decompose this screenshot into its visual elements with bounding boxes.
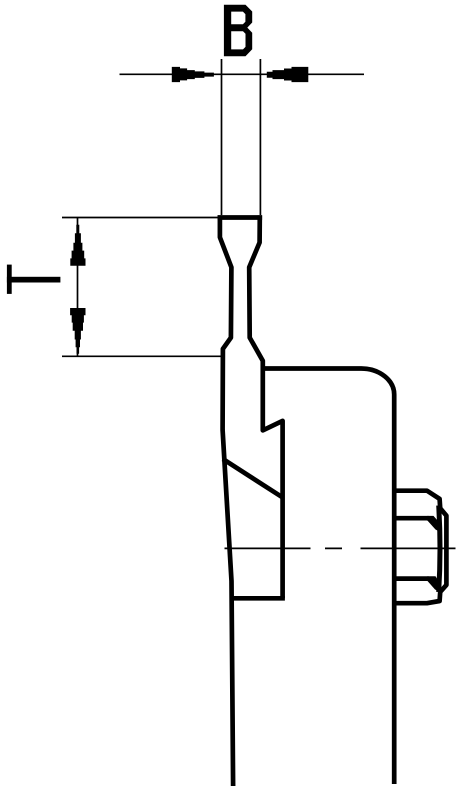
extension line B left [221, 59, 223, 215]
hex middle facet arc [439, 506, 440, 593]
arrowhead B right [267, 67, 309, 82]
hex bolt outline [397, 491, 447, 604]
label B (tooth width) [224, 5, 252, 56]
body top edge with rounded corner [264, 368, 394, 784]
arrowhead T down [70, 308, 85, 354]
arrowhead T up [70, 225, 85, 266]
extension line T top [62, 217, 219, 219]
tooth left profile [220, 215, 233, 786]
hex facet line upper [397, 516, 429, 521]
centre line [225, 547, 311, 549]
extension line B right [259, 59, 261, 215]
extension line T bottom [62, 355, 224, 357]
tooth tip top edge [218, 215, 263, 220]
chip-breaker diagonal [223, 459, 283, 497]
hex facet line lower [397, 576, 429, 581]
hex facet fillet upper [428, 516, 442, 533]
hex facet fillet lower [428, 576, 442, 592]
tooth right profile [249, 215, 282, 598]
dimension line B [120, 73, 365, 75]
holder bottom edge [232, 596, 285, 601]
label T (tooth depth, rotated) [7, 265, 12, 294]
arrowhead B left [172, 67, 214, 82]
dimension line T [77, 218, 79, 356]
